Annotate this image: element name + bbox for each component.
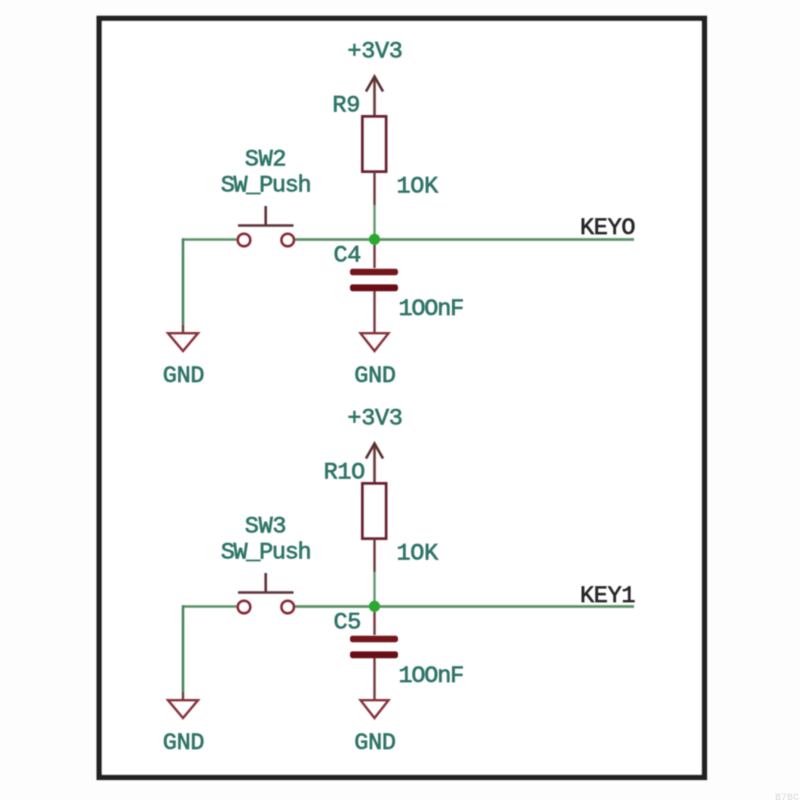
svg-text:1OK: 1OK — [397, 174, 440, 201]
svg-text:SW3: SW3 — [245, 514, 286, 541]
svg-text:1OK: 1OK — [397, 541, 440, 568]
svg-text:B7BC: B7BC — [775, 793, 799, 800]
svg-text:KEY1: KEY1 — [580, 583, 635, 610]
svg-text:+3V3: +3V3 — [347, 406, 402, 433]
svg-text:SW_Push: SW_Push — [221, 173, 311, 200]
svg-text:SW2: SW2 — [245, 147, 286, 174]
svg-text:GND: GND — [354, 730, 395, 757]
svg-text:1OOnF: 1OOnF — [399, 663, 464, 690]
svg-text:R1O: R1O — [324, 460, 365, 487]
svg-text:R9: R9 — [332, 93, 360, 120]
svg-text:+3V3: +3V3 — [347, 39, 402, 66]
svg-text:KEYO: KEYO — [580, 215, 635, 242]
svg-text:GND: GND — [354, 363, 395, 390]
svg-text:C5: C5 — [334, 610, 362, 637]
svg-text:GND: GND — [163, 730, 204, 757]
svg-text:GND: GND — [163, 363, 204, 390]
svg-text:1OOnF: 1OOnF — [399, 296, 464, 323]
svg-text:SW_Push: SW_Push — [221, 540, 311, 567]
svg-text:C4: C4 — [334, 243, 362, 270]
